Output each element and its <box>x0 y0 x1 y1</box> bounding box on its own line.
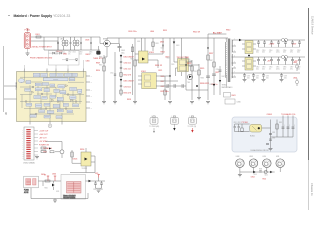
svg-text:R812 47K: R812 47K <box>124 75 132 77</box>
svg-text:+115V: +115V <box>269 43 275 45</box>
svg-text:L806: L806 <box>293 78 297 80</box>
svg-text:100n: 100n <box>266 77 269 79</box>
svg-text:T810: T810 <box>262 179 266 181</box>
svg-text:R835: R835 <box>200 68 204 70</box>
svg-text:L802: L802 <box>73 52 76 54</box>
svg-text:47u: 47u <box>269 68 272 70</box>
svg-text:470u: 470u <box>290 52 293 54</box>
svg-text:R841: R841 <box>232 95 236 97</box>
svg-text:L809: L809 <box>249 156 253 158</box>
svg-text:100n: 100n <box>283 52 286 54</box>
svg-text:C857: C857 <box>290 50 294 52</box>
svg-text:B+ 310V: B+ 310V <box>213 33 222 35</box>
svg-text:C837: C837 <box>93 189 97 191</box>
svg-text:C804: C804 <box>79 52 83 54</box>
svg-text:R856: R856 <box>80 149 84 151</box>
svg-text:R833: R833 <box>187 63 191 65</box>
svg-text:Mainbrd : Power Supply YD2104-: Mainbrd : Power Supply YD2104-33 <box>14 14 71 18</box>
svg-text:IC801: IC801 <box>141 71 146 73</box>
svg-text:C863: C863 <box>262 67 266 69</box>
svg-text:C826: C826 <box>216 69 220 71</box>
svg-text:C846: C846 <box>254 174 257 176</box>
svg-text:R810: R810 <box>96 70 100 72</box>
svg-text:100u: 100u <box>256 52 259 54</box>
svg-text:C865: C865 <box>276 67 280 69</box>
svg-text:C862: C862 <box>256 67 260 69</box>
svg-text:R826: R826 <box>161 76 165 78</box>
svg-text:C821: C821 <box>158 70 162 72</box>
svg-text:C809: C809 <box>121 50 125 52</box>
svg-text:C873: C873 <box>284 76 288 78</box>
svg-text:R809: R809 <box>96 63 100 65</box>
svg-text:L810: L810 <box>263 156 267 158</box>
svg-text:C866: C866 <box>283 67 287 69</box>
svg-text:100n: 100n <box>284 77 287 79</box>
svg-text:L803: L803 <box>137 41 140 43</box>
svg-text:C872: C872 <box>266 76 270 78</box>
svg-text:C816: C816 <box>161 48 165 50</box>
svg-text:C803: C803 <box>85 39 89 41</box>
svg-text:47n: 47n <box>68 53 71 55</box>
svg-text:C856: C856 <box>283 50 287 52</box>
svg-text:R837: R837 <box>210 60 214 62</box>
svg-text:C823: C823 <box>194 71 198 73</box>
svg-text:R821: R821 <box>156 43 160 45</box>
svg-text:FROM CHASSIS GROUND: FROM CHASSIS GROUND <box>30 56 53 59</box>
svg-text:C825: C825 <box>165 87 169 89</box>
svg-text:T803 BUT11AF: T803 BUT11AF <box>177 56 190 59</box>
svg-text:TO CRT (H): TO CRT (H) <box>188 126 197 128</box>
svg-text:CN802 (MAIN): CN802 (MAIN) <box>23 162 35 165</box>
svg-text:IC803: IC803 <box>149 52 154 54</box>
svg-text:R848: R848 <box>259 169 262 171</box>
svg-text:R819: R819 <box>163 30 167 32</box>
svg-text:47u: 47u <box>269 52 272 54</box>
svg-text:2200u: 2200u <box>276 68 280 70</box>
svg-text:C870: C870 <box>247 76 251 78</box>
svg-text:100n: 100n <box>262 68 265 70</box>
svg-text:100u: 100u <box>256 68 259 70</box>
svg-text:R807: R807 <box>99 65 103 67</box>
svg-text:C881: C881 <box>234 122 237 124</box>
svg-text:230V AC POWER INPUT: 230V AC POWER INPUT <box>32 45 53 48</box>
svg-text:470u: 470u <box>290 68 293 70</box>
svg-text:C855: C855 <box>276 50 280 52</box>
svg-text:R881: R881 <box>279 122 282 124</box>
svg-text:C820: C820 <box>171 64 175 66</box>
svg-text:C882: C882 <box>238 122 241 124</box>
svg-text:C854: C854 <box>269 50 273 52</box>
svg-text:11AK19 Service: 11AK19 Service <box>311 16 315 35</box>
svg-text:PL801: PL801 <box>25 30 32 32</box>
svg-text:R815 47K: R815 47K <box>124 93 132 95</box>
svg-text:C852: C852 <box>256 50 260 52</box>
svg-text:R837: R837 <box>209 53 213 55</box>
svg-text:+115V OUT: +115V OUT <box>39 130 49 132</box>
svg-text:C864: C864 <box>269 67 273 69</box>
svg-text:L801: L801 <box>62 52 65 54</box>
svg-text:100n: 100n <box>79 53 82 55</box>
svg-text:C824 100n: C824 100n <box>160 91 169 93</box>
svg-text:C802: C802 <box>68 52 72 54</box>
svg-text:D810: D810 <box>41 174 45 176</box>
svg-text:CN803: CN803 <box>267 114 272 116</box>
svg-text:C811 2n2: C811 2n2 <box>124 69 131 71</box>
svg-text:C812: C812 <box>110 73 114 75</box>
svg-text:100n: 100n <box>256 77 259 79</box>
svg-text:F801: F801 <box>36 34 40 36</box>
svg-text:L805: L805 <box>293 62 297 64</box>
svg-text:R824 1R: R824 1R <box>155 65 163 67</box>
svg-text:RL801: RL801 <box>250 136 255 138</box>
svg-text:100u: 100u <box>121 52 125 54</box>
svg-text:DEGAUSSING CIRCUIT: DEGAUSSING CIRCUIT <box>251 149 270 152</box>
svg-text:R820 1R: R820 1R <box>193 31 201 33</box>
svg-text:30: 30 <box>4 111 8 115</box>
svg-text:2200u: 2200u <box>276 52 280 54</box>
svg-text:100n: 100n <box>55 53 58 55</box>
svg-text:C858: C858 <box>297 50 301 52</box>
svg-text:C868: C868 <box>297 67 301 69</box>
svg-text:C836: C836 <box>52 173 56 175</box>
svg-text:100n: 100n <box>283 68 286 70</box>
svg-text:PTC801: PTC801 <box>242 122 248 124</box>
svg-text:L808: L808 <box>236 156 240 158</box>
svg-text:TLP621: TLP621 <box>82 168 88 170</box>
svg-text:C871: C871 <box>256 76 260 78</box>
svg-text:R822: R822 <box>161 52 165 54</box>
svg-text:T802: T802 <box>187 82 190 84</box>
svg-text:D806: D806 <box>160 41 164 43</box>
svg-text:PL802: PL802 <box>24 189 29 191</box>
svg-text:Q810: Q810 <box>265 175 268 177</box>
svg-text:100n: 100n <box>262 52 265 54</box>
svg-text:R806: R806 <box>99 57 103 59</box>
svg-text:D801: D801 <box>63 54 67 56</box>
svg-text:C801: C801 <box>55 52 59 54</box>
svg-text:C806: C806 <box>86 61 90 63</box>
svg-text:D811: D811 <box>56 191 59 193</box>
svg-text:D812: D812 <box>251 177 255 179</box>
svg-text:C827: C827 <box>215 72 219 74</box>
svg-text:IC805: IC805 <box>73 159 78 161</box>
svg-text:+14V: +14V <box>292 43 297 45</box>
svg-text:R851: R851 <box>45 188 49 190</box>
svg-text:R838 0R22: R838 0R22 <box>200 83 209 85</box>
svg-text:D807: D807 <box>222 76 226 78</box>
svg-text:C805: C805 <box>89 52 93 54</box>
svg-text:60: 60 <box>49 126 51 128</box>
svg-text:C809 220u: C809 220u <box>128 31 137 33</box>
svg-text:R830: R830 <box>187 59 191 61</box>
svg-text:C830: C830 <box>237 102 241 104</box>
svg-text:R823: R823 <box>167 58 171 60</box>
svg-text:L811: L811 <box>276 156 280 158</box>
svg-text:C813 2n2: C813 2n2 <box>124 87 131 89</box>
svg-text:R839: R839 <box>210 84 214 86</box>
svg-text:R813: R813 <box>131 59 135 61</box>
svg-text:L804: L804 <box>150 31 154 33</box>
svg-text:C884: C884 <box>272 138 275 140</box>
svg-text:BR801: BR801 <box>103 39 108 41</box>
svg-text:D803: D803 <box>176 45 180 47</box>
svg-text:+8V OUT: +8V OUT <box>39 138 47 140</box>
svg-text:C822: C822 <box>161 86 165 88</box>
svg-text:100n: 100n <box>297 68 300 70</box>
svg-text:L801: L801 <box>60 39 64 41</box>
svg-text:C853: C853 <box>262 50 266 52</box>
svg-text:Chassis 11: Chassis 11 <box>310 183 314 196</box>
svg-text:100n: 100n <box>247 77 250 79</box>
svg-text:R818: R818 <box>127 99 131 101</box>
svg-text:C883: C883 <box>272 132 275 134</box>
svg-text:SMPS TRAFO: SMPS TRAFO <box>222 86 234 89</box>
svg-text:R840: R840 <box>226 30 230 32</box>
svg-text:C810 2n2: C810 2n2 <box>124 63 131 65</box>
svg-text:100n: 100n <box>297 52 300 54</box>
svg-text:C867: C867 <box>290 67 294 69</box>
svg-text:R827: R827 <box>161 81 165 83</box>
svg-text:POWER ON: POWER ON <box>39 145 50 147</box>
svg-text:+14V OUT: +14V OUT <box>39 134 48 136</box>
svg-text:R836: R836 <box>201 78 205 80</box>
svg-text:47n: 47n <box>89 53 92 55</box>
svg-text:C838: C838 <box>100 189 104 191</box>
